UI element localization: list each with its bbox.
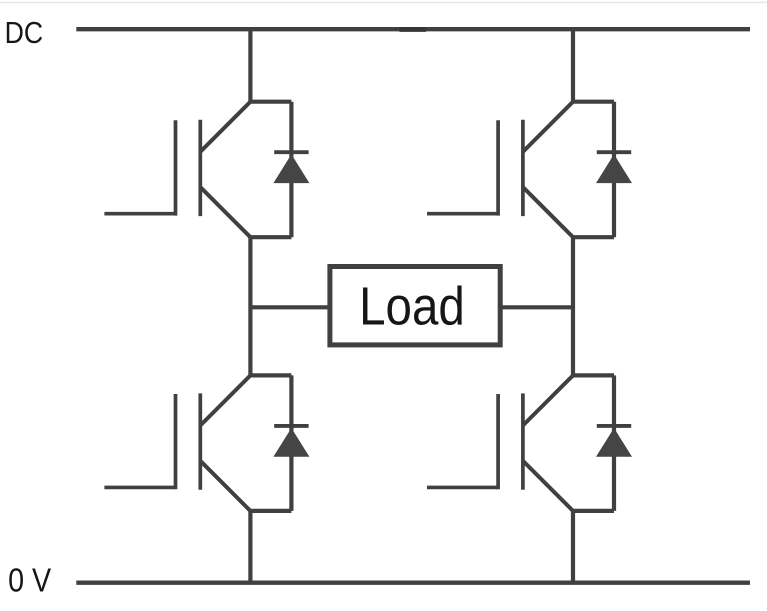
svg-text:0 V: 0 V: [8, 562, 51, 599]
svg-text:DC: DC: [5, 16, 44, 50]
svg-text:Load: Load: [359, 276, 465, 337]
